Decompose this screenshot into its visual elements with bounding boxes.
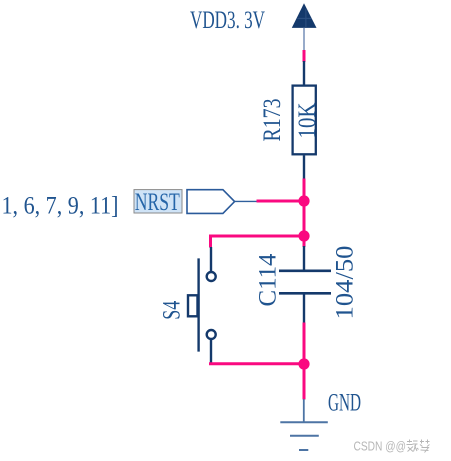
- svg-text:GND: GND: [328, 390, 361, 417]
- resistor R173: [293, 61, 316, 179]
- svg-text:CSDN @@: CSDN @@: [354, 440, 407, 454]
- svg-text:NRST: NRST: [135, 189, 180, 216]
- svg-text:104/50: 104/50: [332, 246, 359, 320]
- svg-text:S4: S4: [159, 300, 186, 319]
- svg-text:C114: C114: [254, 253, 281, 306]
- ground: [280, 399, 328, 450]
- capacitor C114: [279, 246, 331, 324]
- wire VDD to R173: [303, 50, 306, 62]
- node A junction: [298, 195, 309, 206]
- wire C114 to node C: [303, 323, 306, 365]
- wire node B to C114: [303, 236, 306, 247]
- svg-text:R173: R173: [259, 99, 286, 142]
- node B junction: [298, 230, 309, 241]
- svg-text:1, 6, 7, 9, 11]: 1, 6, 7, 9, 11]: [2, 193, 119, 220]
- wire node A to node B: [303, 201, 306, 236]
- svg-text:VDD3. 3V: VDD3. 3V: [190, 7, 265, 34]
- node C junction: [298, 358, 309, 369]
- wire port to node A: [257, 200, 305, 203]
- wire R173 to node A: [303, 179, 306, 202]
- power flag VDD3.3V: [292, 3, 317, 50]
- wire switch S4 to node C: [209, 362, 304, 365]
- watermark CSDN: [354, 440, 430, 454]
- wire node C to ground: [303, 364, 306, 400]
- svg-text:10K: 10K: [294, 103, 321, 139]
- net label NRST: [134, 189, 182, 216]
- wire node B to switch S4: [211, 235, 305, 248]
- switch S4: [188, 247, 216, 363]
- port NRST: [187, 190, 258, 214]
